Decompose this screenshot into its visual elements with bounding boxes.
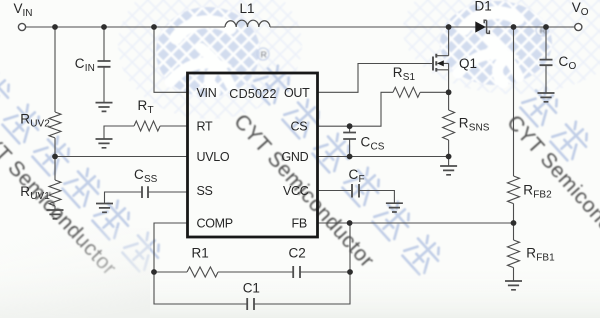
svg-text:R: R xyxy=(138,98,148,113)
transistor Q1 channel xyxy=(435,54,437,72)
svg-text:C: C xyxy=(75,56,85,71)
svg-text:R: R xyxy=(261,49,267,59)
capacitor CIN xyxy=(98,61,111,67)
svg-text:V: V xyxy=(14,1,23,16)
resistor RUV1 xyxy=(49,180,61,206)
node C2-C1 xyxy=(347,269,353,275)
svg-text:GND: GND xyxy=(282,150,309,164)
svg-text:S1: S1 xyxy=(403,72,416,83)
wire RUV2 to RUV1 xyxy=(54,138,56,180)
resistor RSNS xyxy=(443,110,455,140)
svg-text:C: C xyxy=(361,134,371,149)
terminal VIN xyxy=(18,23,25,30)
svg-text:O: O xyxy=(569,61,577,72)
wire RT to ground xyxy=(104,126,134,139)
wire R1 to C2 xyxy=(218,271,293,273)
svg-text:R1: R1 xyxy=(192,246,209,261)
svg-text:C: C xyxy=(134,167,144,182)
wire RSNS to gnd line xyxy=(448,140,450,157)
diagonal cjk texts (approximated glyphs) xyxy=(0,62,593,276)
wire FB node vertical xyxy=(349,223,351,272)
svg-text:UVLO: UVLO xyxy=(197,150,230,164)
svg-text:UV2: UV2 xyxy=(30,119,50,130)
wire CSS to ground xyxy=(105,192,143,204)
svg-text:D1: D1 xyxy=(475,0,492,14)
svg-text:SNS: SNS xyxy=(469,123,490,134)
node COMP-R1 xyxy=(151,269,157,275)
resistor RT xyxy=(134,121,160,131)
capacitor CCS wires xyxy=(349,126,351,156)
transistor Q1 arrow xyxy=(437,60,444,66)
resistor RUV2 xyxy=(49,112,61,138)
transistor Q1 gate bar xyxy=(432,57,434,71)
resistor RFB1 xyxy=(508,240,520,268)
svg-text:T: T xyxy=(148,105,154,116)
svg-text:FB2: FB2 xyxy=(533,190,552,201)
wire top rail right of L1 xyxy=(270,26,575,28)
resistor RFB2 xyxy=(508,176,520,204)
transistor Q1 drain stub xyxy=(436,27,448,56)
svg-text:IN: IN xyxy=(85,63,95,74)
node FB-C2 xyxy=(347,220,353,226)
svg-text:CS: CS xyxy=(291,120,308,134)
wire C2 to node xyxy=(300,271,350,273)
registered marks xyxy=(257,24,548,60)
node Q1 source xyxy=(446,89,452,95)
wire CIN top xyxy=(103,27,105,61)
wire OUT pin to gate xyxy=(318,64,432,93)
wire CO to ground xyxy=(545,65,547,93)
svg-text:CS: CS xyxy=(371,141,385,152)
logo circle 1 xyxy=(156,7,260,97)
svg-text:R: R xyxy=(20,184,30,199)
svg-text:FB1: FB1 xyxy=(536,253,555,264)
node rail-CIN xyxy=(101,24,107,30)
ground CO xyxy=(538,93,555,102)
svg-text:IN: IN xyxy=(23,8,33,19)
ground CIN xyxy=(96,103,113,112)
wire UVLO xyxy=(55,156,187,158)
svg-text:F: F xyxy=(359,174,365,185)
wire CSS to SS pin xyxy=(148,191,187,193)
ground CF xyxy=(386,203,403,212)
wire CF to ground xyxy=(359,191,394,204)
wire CS pin xyxy=(318,92,393,126)
wire VCC pin xyxy=(318,190,351,192)
diode D1 triangle xyxy=(475,21,486,32)
node FB-RFB xyxy=(511,220,517,226)
wire RT to pin xyxy=(160,125,187,127)
wire CO top xyxy=(545,27,547,59)
capacitor CCS xyxy=(343,133,356,140)
wire FB pin xyxy=(318,222,514,224)
svg-text:C2: C2 xyxy=(289,246,306,261)
svg-text:R: R xyxy=(526,246,536,261)
capacitor C2 xyxy=(293,266,300,278)
svg-text:Q1: Q1 xyxy=(459,56,477,71)
node rail-Q1 xyxy=(446,24,452,30)
node rail-RFB2 xyxy=(511,24,517,30)
node GND-RSNS xyxy=(446,154,452,160)
wire C1 to node xyxy=(254,272,350,304)
wire RFB1 to ground xyxy=(513,268,515,281)
svg-text:R: R xyxy=(459,116,469,131)
svg-text:UV1: UV1 xyxy=(30,191,50,202)
halo hatch right xyxy=(403,0,600,94)
diagonal latin texts xyxy=(0,110,600,280)
ground RT xyxy=(96,139,113,148)
wire C1 branch xyxy=(154,272,247,304)
transistor Q1 source stub xyxy=(436,63,448,92)
svg-text:V: V xyxy=(572,0,581,15)
wire GND pin xyxy=(318,157,449,167)
wire VIN pin xyxy=(154,27,187,92)
svg-text:C: C xyxy=(349,167,359,182)
svg-text:RT: RT xyxy=(197,120,214,134)
IC U1 CD5022 box xyxy=(188,73,318,237)
node rail-RUV2 xyxy=(52,24,58,30)
capacitor CO xyxy=(540,60,553,66)
svg-text:R: R xyxy=(20,112,30,127)
ground RUV1 xyxy=(47,210,64,219)
ground GND-RSNS xyxy=(440,166,457,175)
wire CIN to ground xyxy=(103,67,105,103)
wire RFB2 to FB node xyxy=(513,204,515,240)
terminal VO xyxy=(575,23,582,30)
node rail-CO xyxy=(543,24,549,30)
IC pin labels xyxy=(197,86,311,231)
capacitor CF xyxy=(352,184,359,198)
wire top rail left xyxy=(26,26,226,28)
svg-text:VIN: VIN xyxy=(197,86,217,100)
svg-text:C: C xyxy=(559,54,569,69)
logo circle 2 xyxy=(440,1,552,85)
capacitor CSS xyxy=(142,186,148,198)
wire RUV1 to ground xyxy=(54,206,56,210)
svg-text:VCC: VCC xyxy=(283,184,309,198)
wire left rail x55 xyxy=(54,27,56,112)
svg-text:R: R xyxy=(523,183,533,198)
wire RS1 to source node xyxy=(420,91,449,93)
resistor RS1 xyxy=(393,87,420,97)
svg-text:SS: SS xyxy=(144,174,158,185)
svg-text:FB: FB xyxy=(292,217,307,231)
wire right rail x513 xyxy=(513,27,515,176)
node rail-VIN xyxy=(151,24,157,30)
bottom gray wash xyxy=(0,0,1,1)
ground CSS xyxy=(96,204,113,213)
node GND-CCS xyxy=(347,154,353,160)
inductor L1 xyxy=(225,20,270,27)
capacitor C1 xyxy=(247,298,254,310)
diode D1 bar xyxy=(484,20,489,33)
wire source to RSNS xyxy=(448,92,450,110)
svg-text:SS: SS xyxy=(197,184,213,198)
node UVLO xyxy=(52,154,58,160)
wire COMP junction to R1 xyxy=(154,271,187,273)
svg-text:OUT: OUT xyxy=(284,86,310,100)
svg-text:C1: C1 xyxy=(243,281,260,296)
svg-text:O: O xyxy=(581,7,589,18)
svg-text:L1: L1 xyxy=(240,1,255,16)
svg-text:CD5022: CD5022 xyxy=(229,87,276,101)
resistor R1 xyxy=(187,267,218,277)
halo hatch left xyxy=(118,0,302,119)
node CS-CCS xyxy=(347,123,353,129)
svg-text:COMP: COMP xyxy=(197,217,233,231)
wire COMP pin xyxy=(154,223,187,272)
svg-text:R: R xyxy=(393,65,403,80)
ground RFB1 xyxy=(505,281,522,290)
